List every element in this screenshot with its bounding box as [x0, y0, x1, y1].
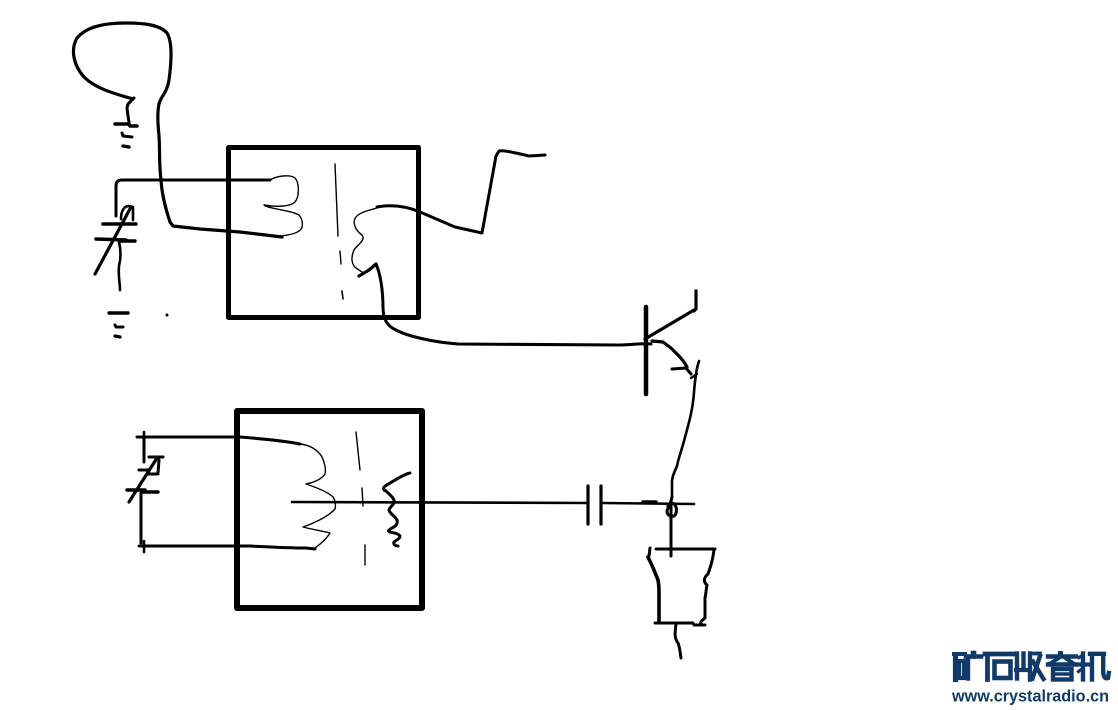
- svg-text:www.crystalradio.cn: www.crystalradio.cn: [951, 688, 1109, 706]
